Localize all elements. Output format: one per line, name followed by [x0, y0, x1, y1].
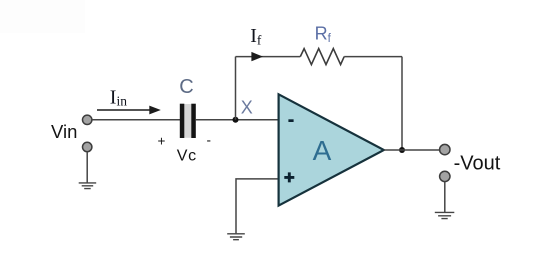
- terminal Vin (input port, top circle): [83, 115, 92, 124]
- terminal Vin ground-side circle: [83, 142, 92, 151]
- capacitor C right plate: [191, 104, 196, 138]
- wire output junction dot: [399, 147, 405, 153]
- terminal Vout (output port circle): [440, 144, 450, 154]
- capacitor C (dielectric gap): [184, 104, 191, 138]
- svg-text:C: C: [179, 76, 193, 98]
- wire Vout terminal to ground: [444, 182, 446, 213]
- op-amp A triangle: [279, 94, 384, 205]
- op-amp inverting input symbol -: [288, 119, 293, 122]
- ground (non-inverting input): [227, 234, 245, 240]
- svg-text:-Vout: -Vout: [454, 153, 501, 175]
- ground (output): [435, 212, 455, 218]
- svg-text:-: -: [207, 133, 212, 148]
- wire Vin terminal to ground: [86, 152, 88, 183]
- resistor Rf zigzag: [300, 49, 344, 65]
- svg-text:A: A: [313, 135, 332, 166]
- wire op-amp output to terminal: [384, 149, 440, 151]
- wire resistor to output corner: [344, 56, 402, 58]
- wire capacitor to inverting input: [196, 119, 278, 121]
- terminal Vout ground-side circle: [440, 171, 450, 181]
- svg-text:+: +: [158, 134, 166, 149]
- current arrow If (arrowhead on feedback wire): [251, 52, 263, 61]
- wire Vin to capacitor: [92, 119, 181, 121]
- capacitor C left plate: [180, 104, 185, 138]
- wire feedback drop to output: [401, 57, 403, 150]
- svg-text:X: X: [241, 97, 253, 117]
- svg-text:Vin: Vin: [51, 121, 77, 142]
- ground (input): [79, 183, 97, 189]
- wire feedback top run: [236, 56, 301, 58]
- node X junction dot: [233, 117, 239, 123]
- wire non-inverting input to ground: [236, 179, 278, 234]
- op-amp non-inverting input symbol +: [284, 172, 294, 182]
- wire feedback riser: [235, 57, 237, 120]
- svg-text:Vc: Vc: [177, 147, 197, 164]
- current arrow Iin: [97, 109, 150, 111]
